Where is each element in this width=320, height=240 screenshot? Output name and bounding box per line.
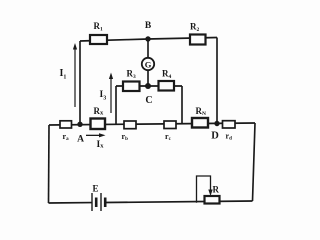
svg-text:A: A (77, 135, 84, 145)
resistor RN (192, 118, 208, 128)
wire: top horizontal A-corner to top-right corner through R1, B, R2 (80, 38, 217, 42)
node C (145, 83, 151, 89)
svg-text:B: B (145, 21, 152, 31)
node A (77, 122, 82, 127)
wire: inner right vertical down to middle rail (181, 86, 183, 124)
wire: middle horizontal rail from left corner to right corner (49, 123, 255, 125)
resistor rb (124, 121, 136, 129)
resistor Rx (91, 119, 106, 130)
wire: inner bridge horizontal through R3, C, R4 (116, 85, 182, 87)
resistor R2 (190, 35, 206, 45)
svg-text:G: G (145, 59, 152, 69)
svg-text:E: E (92, 184, 98, 194)
rheostat R wiper wire (197, 176, 211, 203)
resistor R3 (123, 82, 140, 92)
wire: left outer vertical (48, 125, 51, 203)
current arrow I3 (up) (110, 76, 111, 113)
battery E long plate 2 (100, 193, 102, 211)
current arrow I1 (up) (74, 47, 75, 107)
resistor rc (164, 121, 176, 129)
wire: bottom horizontal left of battery (49, 202, 93, 204)
battery E short plate 1 (95, 198, 98, 208)
wire: right outer vertical (253, 123, 256, 201)
wire: galvanometer down to C (147, 70, 149, 86)
wire: inner left vertical down to middle rail (115, 86, 117, 124)
node D (214, 121, 219, 126)
resistor rd (223, 121, 236, 128)
rheostat R wiper arrowhead (208, 190, 212, 197)
svg-text:C: C (145, 95, 152, 106)
wire: left vertical from top corner down to node A (79, 41, 81, 125)
svg-text:R: R (213, 184, 220, 194)
wire: right vertical from top corner down to node D (216, 38, 218, 124)
battery E long plate 1 (91, 193, 93, 211)
wire: bottom horizontal right of battery (105, 201, 253, 203)
node B (145, 36, 150, 41)
current arrow Ix (right) (86, 135, 101, 136)
galvanometer U1 (G) (142, 58, 154, 70)
rheostat R box (205, 196, 220, 204)
svg-text:D: D (211, 131, 219, 142)
resistor R4 (159, 81, 175, 91)
resistor R1 (90, 35, 107, 44)
resistor ra (60, 121, 72, 128)
wire: B down to galvanometer (147, 39, 149, 58)
battery E short plate 2 (104, 198, 107, 208)
